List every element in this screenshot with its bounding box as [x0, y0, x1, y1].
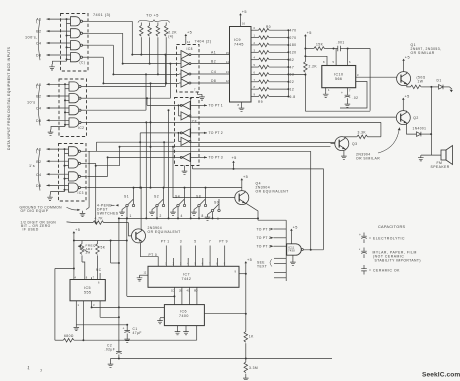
- IC6 left ground: [160, 317, 164, 319]
- IC5 pin3 output wire: [91, 301, 93, 308]
- svg-text:680Ω: 680Ω: [64, 334, 74, 338]
- IC6 left pin wire: [92, 306, 165, 308]
- IC11 ground: [292, 255, 294, 259]
- NAND gate C4 group 1: [71, 41, 83, 50]
- Q1 +5 collector: [403, 64, 405, 72]
- inverter to PT3: [180, 153, 190, 161]
- lower loop wires: [304, 75, 306, 112]
- NAND gate C4 group 3: [69, 172, 81, 181]
- input label A1: [81, 86, 87, 88]
- inverter 3 of IC8: [181, 70, 191, 78]
- svg-text:Q3: Q3: [352, 142, 357, 146]
- svg-text:+5: +5: [405, 55, 410, 59]
- svg-text:TO PT 1: TO PT 1: [257, 227, 271, 231]
- svg-text:2: 2: [160, 214, 162, 218]
- +5 pin 14 of IC8: [185, 34, 188, 39]
- IC7 bottom pins to IC6: [173, 287, 175, 304]
- svg-text:2.2K: 2.2K: [309, 65, 318, 69]
- ladder rung: [274, 263, 286, 265]
- mesh vertical x=164: [163, 142, 165, 187]
- NAND gate C4 group 2: [69, 106, 81, 115]
- strobe feed line: [64, 149, 66, 192]
- svg-text:7404 (2): 7404 (2): [195, 40, 212, 44]
- +5 for IC5: [73, 231, 76, 236]
- svg-text:OR SIMILAR: OR SIMILAR: [411, 51, 435, 55]
- switch S4: [177, 199, 186, 206]
- label SEE TEXT: [270, 259, 272, 267]
- transistor Q1: [397, 72, 411, 86]
- switch S0: [211, 204, 220, 211]
- svg-text:IC2: IC2: [78, 126, 84, 130]
- Q5 base wire from 4.7K: [129, 223, 132, 236]
- IC10 pin3 output: [356, 76, 397, 78]
- resistor 5K: [97, 241, 99, 244]
- svg-text:33: 33: [290, 73, 295, 77]
- input label D8: [83, 56, 89, 58]
- ground stub: [51, 127, 65, 130]
- IC6 bottom grounds: [177, 326, 179, 329]
- svg-text:5: 5: [194, 240, 196, 244]
- svg-text:+5: +5: [307, 31, 312, 35]
- svg-text:(C): (C): [80, 61, 86, 65]
- ground stub: [53, 61, 67, 64]
- svg-text:7: 7: [40, 368, 43, 373]
- IC11 output wire: [303, 249, 323, 251]
- IC8 ground pin: [198, 92, 203, 94]
- svg-text:SeekIC.com: SeekIC.com: [422, 372, 460, 379]
- svg-text:C4: C4: [211, 70, 216, 74]
- Q3 ground: [343, 151, 345, 154]
- svg-text:7401 (3): 7401 (3): [93, 13, 111, 17]
- svg-text:566: 566: [335, 77, 342, 81]
- resistor 2.2K vertical: [304, 49, 306, 62]
- svg-text:3: 3: [180, 240, 182, 244]
- ladder rung: [274, 272, 286, 274]
- svg-text:1N4001: 1N4001: [413, 127, 427, 131]
- transistor Q2: [396, 111, 410, 125]
- pot FREQ ADJ 2M: [81, 241, 83, 244]
- capacitor .001: [334, 48, 338, 50]
- transistor Q4 2N3904: [235, 191, 249, 205]
- stub pin of 555: [91, 277, 93, 279]
- mesh row y=142 left part: [96, 141, 174, 143]
- speaker ground: [421, 154, 441, 156]
- svg-text:0: 0: [217, 217, 219, 221]
- svg-text:+5: +5: [242, 10, 247, 14]
- feedback loop wire: [193, 169, 324, 250]
- resistor 680 ohm: [55, 339, 63, 341]
- curved pointer to Q2: [378, 128, 400, 154]
- switch S8: [198, 199, 207, 206]
- diode D1: [439, 85, 443, 90]
- Q4 base wire: [173, 147, 235, 198]
- svg-text:555: 555: [84, 290, 91, 294]
- svg-text:IF USED: IF USED: [23, 228, 39, 232]
- svg-text:+5: +5: [405, 94, 410, 98]
- FM speaker: [441, 150, 446, 160]
- +5 for IC10: [304, 34, 307, 39]
- IC11 7430 gate: [287, 244, 302, 255]
- svg-text:CAPACITORS: CAPACITORS: [378, 225, 406, 229]
- NAND gate A1 group 3: [69, 147, 81, 156]
- svg-text:TO +5: TO +5: [146, 14, 159, 18]
- ground stub: [51, 192, 65, 195]
- svg-text:B2: B2: [211, 59, 216, 63]
- svg-text:(4): (4): [168, 34, 174, 38]
- svg-text:PT 1: PT 1: [161, 240, 170, 244]
- svg-text:.001: .001: [337, 41, 345, 45]
- Q2 emitter + diode 1N4001: [407, 125, 417, 135]
- svg-text:PT 9: PT 9: [219, 240, 228, 244]
- output bus vertical: [287, 30, 289, 96]
- svg-text:IC6: IC6: [180, 309, 187, 313]
- transistor Q5 2N3904: [132, 229, 146, 243]
- svg-text:100's,: 100's,: [25, 36, 38, 40]
- Q4 collector +5: [241, 183, 243, 191]
- pot bottom to 555: [82, 262, 85, 280]
- svg-text:D1: D1: [437, 78, 442, 82]
- svg-text:TO PT 2: TO PT 2: [209, 131, 223, 135]
- svg-text:6.8: 6.8: [290, 95, 296, 99]
- gate output to ground-of-dig-equip: [88, 151, 90, 207]
- svg-text:8D: 8D: [194, 289, 197, 293]
- svg-text:S2: S2: [154, 195, 159, 199]
- long wire to Q2 base: [190, 116, 396, 118]
- svg-text:10's: 10's: [27, 101, 36, 105]
- svg-text:C4: C4: [36, 42, 42, 46]
- svg-text:5K: 5K: [101, 246, 106, 250]
- wire from mesh to IC6 pins: [127, 295, 175, 297]
- label 4-PEND DPST SWITCHES: [111, 204, 115, 206]
- IC10 pin1 ground: [325, 88, 327, 92]
- svg-text:7442: 7442: [182, 277, 192, 281]
- input label D8: [81, 187, 87, 189]
- bus continues to IC11 ladder: [258, 219, 286, 221]
- Q1 emitter to 50 ohm resistor: [407, 86, 411, 87]
- svg-text:D8: D8: [36, 184, 42, 188]
- svg-text:4C: 4C: [187, 289, 190, 293]
- NAND gate B2 group 1: [71, 29, 83, 38]
- ground rail to C1: [76, 324, 127, 326]
- svg-text:3.3K: 3.3K: [358, 131, 367, 135]
- +5 tap on feedback line: [233, 165, 235, 169]
- svg-text:4: 4: [181, 214, 183, 218]
- IC6 bottom pin to 680 net: [196, 326, 198, 341]
- svg-text:TO PT 3: TO PT 3: [209, 156, 223, 160]
- svg-text:TEXT: TEXT: [257, 265, 267, 269]
- wire mesh: BCD bus rows: [132, 54, 179, 56]
- pull-up resistors 2.2K (4): [140, 23, 142, 26]
- +5 pin 16 of IC9: [239, 13, 242, 18]
- input label C4: [81, 109, 87, 111]
- switch S2: [156, 199, 165, 206]
- svg-text:+5: +5: [75, 228, 80, 232]
- IC9 7445: [230, 27, 252, 103]
- svg-text:+5: +5: [243, 175, 248, 179]
- row y=187 collector row: [133, 187, 242, 189]
- svg-text:S0: S0: [214, 201, 219, 205]
- switch S2 ground: [152, 207, 156, 210]
- svg-text:22: 22: [290, 80, 295, 84]
- svg-text:OR EQUIVALENT: OR EQUIVALENT: [148, 230, 181, 234]
- wire to right loop: [348, 48, 371, 50]
- IC8b 7404 dashed box: [175, 98, 200, 166]
- input group brace: [38, 84, 40, 126]
- svg-text:OF DIG EQUIP: OF DIG EQUIP: [21, 209, 49, 213]
- arrow to ground: [67, 207, 79, 210]
- svg-text:*: *: [359, 248, 361, 252]
- input label B2: [83, 32, 89, 34]
- Q1 base wire: [396, 78, 398, 80]
- svg-text:7430: 7430: [288, 249, 295, 253]
- svg-text:7445: 7445: [234, 43, 244, 47]
- capacitor C2 .02uF: [118, 307, 120, 351]
- IC 7401 quad-gate dashed box group 2: [59, 79, 87, 137]
- svg-text:S8: S8: [196, 195, 201, 199]
- svg-text:SWITCHES: SWITCHES: [97, 212, 119, 216]
- svg-text:NC: NC: [96, 268, 102, 272]
- wiper arrow: [78, 246, 88, 252]
- svg-text:B2: B2: [36, 160, 41, 164]
- svg-text:TO PT 3: TO PT 3: [257, 245, 271, 249]
- svg-text:S1: S1: [124, 195, 129, 199]
- resistor 3.3K to Q2 base: [344, 136, 357, 138]
- svg-text:7400: 7400: [179, 314, 189, 318]
- IC7 right pin 9 to +5: [239, 273, 246, 275]
- IC7 output pins PT0-PT9: [165, 246, 167, 267]
- switch S1: [126, 199, 135, 206]
- svg-text:C4: C4: [36, 173, 42, 177]
- svg-text:IC8: IC8: [187, 47, 193, 51]
- svg-text:+: +: [341, 91, 343, 95]
- svg-text:3.3M: 3.3M: [249, 366, 258, 370]
- svg-text:B2: B2: [36, 30, 41, 34]
- svg-text:OR EQUIVALENT: OR EQUIVALENT: [256, 190, 289, 194]
- output arrow: [450, 87, 453, 89]
- svg-text:1: 1: [130, 214, 132, 218]
- svg-text:SPEAKER: SPEAKER: [431, 165, 450, 169]
- box3 output wires: [87, 150, 310, 152]
- input label B2: [81, 97, 87, 99]
- svg-text:= ELECTROLYTIC: = ELECTROLYTIC: [369, 237, 405, 241]
- switch S1 ground: [122, 207, 126, 210]
- svg-text:47μF: 47μF: [133, 331, 142, 335]
- ladder rung: [274, 257, 286, 259]
- svg-text:7: 7: [209, 240, 211, 244]
- svg-text:2M: 2M: [86, 251, 91, 255]
- wire D1 junction down to speaker: [430, 87, 432, 155]
- input group brace: [38, 18, 40, 60]
- input label A1: [81, 150, 87, 152]
- ladder rung TO PT 3: [274, 245, 287, 247]
- IC10 566: [322, 66, 356, 88]
- IC8b +5 pin wire joins feedback net: [192, 166, 194, 169]
- svg-text:82: 82: [290, 58, 295, 62]
- second long row pair: [151, 121, 381, 123]
- mesh jog y=165.7: [96, 165, 120, 167]
- inverter 2 of IC8: [181, 60, 191, 68]
- svg-text:1D: 1D: [171, 289, 174, 293]
- svg-text:180: 180: [290, 43, 297, 47]
- Q5 emitter wire to IC7 PT0: [141, 243, 159, 267]
- svg-text:470: 470: [290, 29, 297, 33]
- wire left loop: [55, 268, 74, 270]
- svg-text:270: 270: [290, 36, 297, 40]
- bottom ground bus: [111, 358, 333, 360]
- box2 output staircase wires: [87, 86, 165, 88]
- TO PT2 row left extension: [140, 132, 172, 134]
- svg-text:1W: 1W: [418, 79, 424, 83]
- svg-text:+5: +5: [293, 225, 298, 229]
- svg-text:A1: A1: [211, 50, 216, 54]
- svg-text:D8: D8: [211, 79, 216, 83]
- svg-text:B2: B2: [36, 95, 41, 99]
- inverter 4 of IC8: [181, 79, 191, 87]
- svg-text:1K: 1K: [249, 335, 254, 339]
- svg-text:R9: R9: [258, 100, 263, 104]
- svg-text:IC7: IC7: [183, 272, 190, 276]
- svg-text:+5: +5: [247, 258, 252, 262]
- ladder rung TO PT 2: [274, 237, 287, 239]
- svg-text:+5: +5: [232, 156, 237, 160]
- ladder rung: [274, 277, 286, 279]
- svg-text:8: 8: [202, 214, 204, 218]
- legend electrolytic symbol: [363, 233, 365, 237]
- svg-text:A1: A1: [36, 18, 41, 22]
- long wire to Q3 base: [190, 142, 335, 144]
- TO PT1 row left extension: [147, 104, 178, 106]
- +5 feed vertical: [245, 261, 248, 266]
- capacitor .02 at pin 7: [346, 88, 348, 96]
- strobe feed line: [66, 19, 68, 61]
- NAND gate A1 group 1: [71, 17, 83, 26]
- legend mylar symbol: [363, 248, 365, 252]
- vertical net +5 to bottom bus: [245, 274, 247, 332]
- Q4 emitter wire: [246, 203, 258, 218]
- label NC: [99, 273, 101, 280]
- svg-text:S4: S4: [175, 195, 180, 199]
- pot top rail: [74, 240, 127, 242]
- IC7 left pin 12 to ground: [140, 274, 149, 276]
- Q3 base wire: [331, 143, 335, 145]
- IC9 pin 8 ground: [241, 102, 243, 106]
- input group brace: [38, 148, 40, 190]
- brace over resistors: [138, 20, 170, 23]
- inverter buffer 4: [181, 137, 191, 145]
- IC5 pin5 wire to C2: [99, 301, 101, 318]
- input label B2: [81, 162, 87, 164]
- svg-text:TO PT 2: TO PT 2: [257, 236, 271, 240]
- IC7 7442: [148, 266, 239, 287]
- IC11 7430 input ladder: [285, 220, 287, 281]
- IC8 7404 dashed box: [177, 45, 200, 93]
- inverter 1 of IC8: [181, 51, 191, 59]
- input label C4: [81, 175, 87, 177]
- svg-text:R0: R0: [266, 25, 271, 29]
- svg-text:2B: 2B: [179, 289, 182, 293]
- switch S8 ground: [194, 207, 198, 210]
- IC5 pin2 stub to 680 net: [82, 301, 84, 340]
- NAND gate D8 group 3: [69, 183, 81, 192]
- svg-text:.02μF: .02μF: [105, 348, 116, 352]
- svg-text:PT 0: PT 0: [149, 253, 158, 257]
- capacitor C1 47uF: [126, 325, 128, 331]
- svg-text:4.7K: 4.7K: [95, 217, 104, 221]
- mesh vertical x=140: [139, 133, 141, 188]
- IC 7401 quad-gate dashed box group 1: [61, 14, 89, 72]
- IC8b ground pin: [184, 166, 186, 169]
- svg-text:IC8: IC8: [191, 120, 197, 124]
- IC 7401 quad-gate dashed box group 3: [59, 144, 87, 202]
- inverter buffer 2: [181, 112, 191, 120]
- input label D8: [81, 122, 87, 124]
- svg-text:47: 47: [290, 65, 295, 69]
- input label C4: [83, 44, 89, 46]
- row to Q3 mesh verticals: [150, 122, 152, 187]
- inverter to PT1: [180, 101, 190, 109]
- IC6 7400: [164, 305, 204, 326]
- NAND gate A1 group 2: [69, 82, 81, 91]
- IC5 555: [70, 280, 105, 301]
- resistor 3.3M below bus: [245, 359, 247, 363]
- pins 5 and 6 stubs: [335, 49, 337, 66]
- svg-text:.02: .02: [353, 96, 359, 100]
- long vertical from row to IC11 output net: [310, 151, 312, 250]
- svg-text:IC10: IC10: [334, 73, 343, 77]
- svg-text:+: +: [123, 327, 125, 331]
- svg-text:OR SIMILAR: OR SIMILAR: [356, 157, 380, 161]
- svg-text:+: +: [359, 233, 361, 237]
- svg-text:IC9: IC9: [234, 38, 241, 42]
- resistor 15K: [305, 48, 314, 50]
- resistor 4.7K: [67, 221, 94, 224]
- switch common bus: [119, 217, 258, 219]
- NAND gate B2 group 3: [69, 159, 81, 168]
- inverter to PT2: [180, 129, 190, 137]
- svg-text:+5: +5: [187, 31, 192, 35]
- svg-text:DATA INPUT FROM DIGITAL EQUIPM: DATA INPUT FROM DIGITAL EQUIPMENT BCD IN…: [7, 46, 11, 150]
- svg-text:IC5: IC5: [84, 286, 91, 290]
- box1 output staircase wires: [89, 20, 133, 22]
- IC5 pin1 ground: [75, 301, 77, 325]
- NAND gate D8 group 2: [69, 118, 81, 127]
- input label A1: [83, 20, 89, 22]
- IC6 right pin wire: [204, 313, 245, 315]
- svg-text:D8: D8: [36, 119, 42, 123]
- transistor Q3: [335, 137, 349, 151]
- NAND gate D8 group 1: [71, 53, 83, 62]
- svg-text:STABILITY IMPORTANT): STABILITY IMPORTANT): [375, 258, 421, 262]
- resistor 1K: [244, 332, 248, 343]
- pin 8 wire: [305, 56, 327, 65]
- svg-text:C4: C4: [36, 107, 42, 111]
- svg-text:IC3: IC3: [78, 191, 84, 195]
- svg-text:1's: 1's: [29, 164, 35, 168]
- svg-text:120: 120: [290, 51, 297, 55]
- wire pin6 of 555: [110, 241, 112, 264]
- mesh verticals down to switch bus: [145, 122, 147, 218]
- svg-text:12: 12: [290, 87, 295, 91]
- Q2 +5 collector: [402, 103, 404, 111]
- svg-text:D8: D8: [36, 54, 42, 58]
- output resistors R0-R9 to bus: [251, 29, 259, 31]
- NAND gate B2 group 2: [69, 94, 81, 103]
- Q5 collector wire: [140, 188, 142, 230]
- svg-text:TO PT 1: TO PT 1: [209, 104, 223, 108]
- legend ceramic symbol: [363, 265, 365, 269]
- svg-text:A1: A1: [36, 148, 41, 152]
- svg-text:15K: 15K: [316, 43, 324, 47]
